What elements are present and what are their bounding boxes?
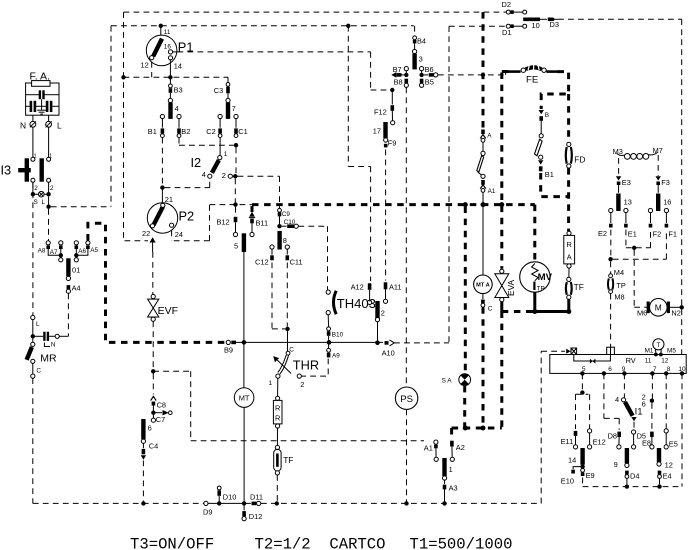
svg-text:B2: B2	[181, 127, 190, 136]
svg-text:M4: M4	[614, 268, 624, 277]
svg-text:01: 01	[72, 266, 80, 275]
svg-text:A8: A8	[38, 248, 46, 255]
svg-text:N2: N2	[671, 309, 680, 318]
svg-text:MR: MR	[40, 353, 57, 365]
svg-text:2: 2	[50, 185, 54, 192]
svg-text:A5: A5	[90, 247, 98, 254]
svg-text:R: R	[275, 414, 280, 423]
svg-text:T2=1/2 CARTCO: T2=1/2 CARTCO	[255, 536, 386, 550]
svg-text:MT: MT	[239, 394, 250, 403]
svg-text:A6: A6	[78, 248, 86, 255]
svg-text:14: 14	[568, 456, 576, 465]
svg-text:22: 22	[142, 229, 150, 238]
svg-text:C: C	[488, 306, 493, 313]
svg-text:4: 4	[615, 395, 619, 404]
svg-text:T3=ON/OFF: T3=ON/OFF	[130, 536, 214, 550]
svg-text:D11: D11	[250, 493, 263, 502]
svg-text:7: 7	[232, 104, 236, 113]
svg-text:12: 12	[665, 461, 673, 470]
svg-text:R: R	[567, 240, 572, 249]
svg-text:C12: C12	[255, 258, 269, 267]
svg-text:B8: B8	[394, 78, 403, 87]
svg-text:6: 6	[608, 366, 612, 373]
svg-text:B10: B10	[332, 332, 344, 339]
svg-text:12: 12	[141, 61, 149, 70]
svg-text:C1: C1	[238, 127, 247, 136]
svg-text:A: A	[567, 253, 572, 262]
svg-text:F12: F12	[374, 108, 387, 117]
svg-text:2: 2	[381, 309, 385, 318]
svg-text:D8: D8	[608, 432, 617, 441]
svg-text:14: 14	[174, 62, 182, 71]
svg-text:D4: D4	[630, 472, 639, 481]
svg-text:D10: D10	[223, 493, 237, 502]
svg-text:B6: B6	[425, 65, 434, 74]
svg-text:A3: A3	[449, 484, 458, 493]
svg-text:S: S	[34, 199, 38, 206]
svg-text:B4: B4	[417, 37, 426, 46]
svg-text:EVA: EVA	[506, 279, 516, 296]
svg-text:EVF: EVF	[158, 305, 178, 317]
svg-text:1: 1	[224, 151, 228, 158]
svg-text:I3: I3	[1, 163, 12, 178]
svg-text:B9: B9	[224, 346, 233, 355]
svg-text:B: B	[545, 112, 549, 119]
svg-text:B1: B1	[545, 170, 554, 179]
svg-text:9: 9	[614, 460, 618, 469]
svg-text:B3: B3	[174, 86, 183, 95]
svg-text:TP: TP	[616, 281, 626, 290]
svg-text:TH403: TH403	[337, 296, 376, 311]
svg-text:L: L	[42, 199, 46, 206]
svg-text:D12: D12	[249, 512, 263, 521]
svg-text:A4: A4	[72, 284, 81, 293]
svg-text:N: N	[20, 121, 26, 131]
svg-text:M1: M1	[645, 348, 654, 355]
svg-text:C8: C8	[157, 401, 166, 410]
svg-text:E2: E2	[598, 229, 607, 238]
svg-text:B7: B7	[393, 65, 402, 74]
svg-text:M8: M8	[614, 293, 624, 302]
svg-text:L: L	[36, 321, 40, 328]
svg-text:T1=500/1000: T1=500/1000	[410, 536, 513, 550]
svg-text:B1: B1	[148, 127, 157, 136]
svg-text:10: 10	[532, 21, 540, 30]
svg-text:E10: E10	[561, 477, 574, 486]
svg-text:C2: C2	[206, 127, 215, 136]
svg-text:M5: M5	[667, 348, 676, 355]
svg-text:A: A	[487, 133, 492, 140]
svg-text:M6: M6	[637, 309, 647, 318]
svg-text:B5: B5	[425, 78, 434, 87]
svg-text:B11: B11	[256, 219, 269, 228]
svg-text:3: 3	[419, 55, 423, 64]
svg-text:E3: E3	[622, 178, 631, 187]
svg-text:D2: D2	[502, 0, 511, 9]
svg-text:A11: A11	[389, 283, 402, 292]
svg-text:MT A: MT A	[476, 283, 489, 289]
svg-text:R: R	[275, 404, 280, 413]
svg-text:11: 11	[645, 358, 652, 365]
svg-text:TF: TF	[283, 455, 293, 465]
svg-text:E4: E4	[663, 472, 672, 481]
svg-text:RV: RV	[626, 356, 636, 365]
svg-text:A1: A1	[488, 188, 496, 195]
svg-text:I2: I2	[191, 155, 202, 170]
svg-text:16: 16	[663, 198, 671, 207]
svg-text:4: 4	[202, 170, 206, 179]
svg-text:F1: F1	[668, 230, 677, 239]
svg-text:2: 2	[300, 380, 304, 389]
svg-text:C3: C3	[214, 86, 223, 95]
svg-text:6: 6	[642, 400, 646, 409]
svg-text:N: N	[51, 342, 56, 349]
svg-text:MV: MV	[538, 272, 553, 283]
svg-text:C11: C11	[290, 258, 303, 267]
svg-text:6: 6	[148, 424, 152, 433]
svg-text:E1: E1	[628, 230, 637, 239]
svg-text:M: M	[655, 302, 662, 312]
svg-text:PS: PS	[400, 394, 413, 405]
svg-text:D1: D1	[502, 28, 511, 37]
svg-text:F2: F2	[653, 230, 662, 239]
svg-text:E11: E11	[561, 437, 574, 446]
svg-text:D3: D3	[550, 20, 559, 29]
svg-text:A10: A10	[382, 349, 395, 358]
svg-text:P2: P2	[179, 209, 195, 224]
svg-text:F9: F9	[388, 139, 397, 148]
svg-text:17: 17	[373, 127, 381, 136]
svg-text:A9: A9	[332, 353, 340, 360]
svg-text:TP: TP	[537, 286, 545, 293]
svg-text:TF: TF	[574, 282, 584, 292]
svg-text:C4: C4	[149, 442, 158, 451]
svg-text:24: 24	[175, 230, 183, 239]
svg-text:T: T	[656, 342, 660, 349]
svg-text:S A: S A	[442, 378, 453, 385]
svg-text:8: 8	[283, 236, 287, 245]
svg-text:M7: M7	[653, 146, 663, 155]
svg-text:E12: E12	[593, 438, 606, 447]
svg-text:21: 21	[165, 195, 173, 204]
svg-text:A2: A2	[456, 443, 465, 452]
svg-text:A1: A1	[424, 444, 433, 453]
svg-text:FE: FE	[526, 75, 538, 86]
svg-text:A12: A12	[351, 283, 364, 292]
svg-text:B12: B12	[217, 218, 230, 227]
svg-text:L: L	[57, 121, 62, 131]
svg-text:FD: FD	[574, 155, 585, 165]
svg-text:F3: F3	[661, 178, 670, 187]
svg-text:5: 5	[234, 242, 238, 251]
svg-text:THR: THR	[293, 358, 319, 373]
svg-text:4: 4	[175, 104, 179, 113]
svg-text:2: 2	[34, 185, 38, 192]
svg-text:E5: E5	[669, 440, 678, 449]
svg-text:2: 2	[222, 171, 226, 180]
svg-text:1: 1	[449, 465, 453, 474]
svg-text:C9: C9	[282, 211, 291, 218]
svg-text:13: 13	[624, 198, 632, 207]
svg-text:C: C	[36, 368, 41, 375]
svg-text:C7: C7	[156, 415, 165, 424]
svg-text:E9: E9	[586, 471, 595, 480]
svg-text:16: 16	[164, 44, 172, 51]
svg-text:12: 12	[661, 358, 669, 365]
svg-text:1: 1	[269, 380, 273, 387]
svg-text:D9: D9	[203, 508, 212, 517]
